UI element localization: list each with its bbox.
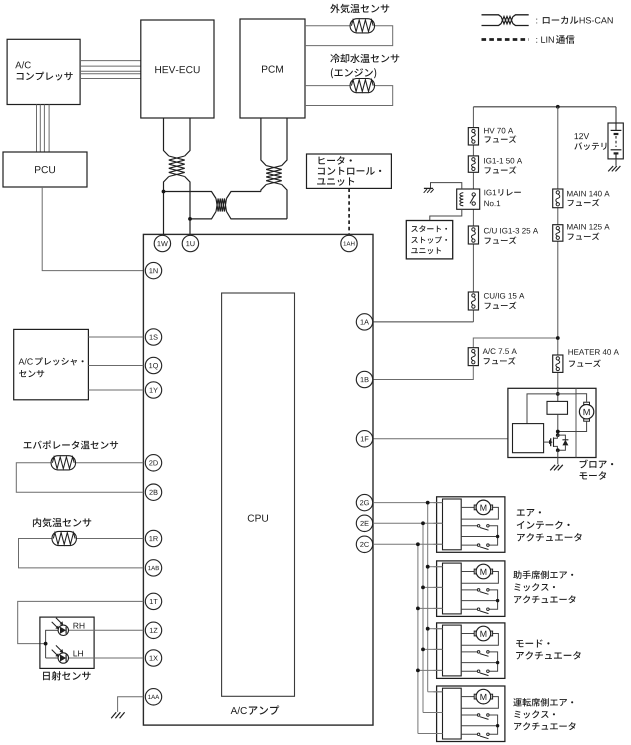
evaporator temp thermistor (51, 456, 75, 470)
legend LIN dashed line (482, 38, 529, 41)
PCM label (262, 66, 283, 73)
driver air mix actuator gearbox block (443, 688, 462, 739)
fuse A/C 7.5A label (483, 348, 517, 354)
wire 1AA to ground (118, 697, 144, 712)
driver air mix actuator common link (489, 715, 498, 734)
mode actuator motor M (474, 631, 476, 636)
wire battery to ground (615, 159, 617, 166)
driver air mix actuator motor loop (461, 697, 498, 709)
wire branch to A/C fuse (473, 338, 558, 348)
feeder vertical 2E (422, 523, 424, 712)
HEV-ECU label (155, 66, 199, 73)
A/C pressure sensor label (19, 358, 33, 364)
wire bundle compressor to HEV-ECU (80, 60, 141, 62)
PCU box (3, 152, 87, 187)
driver air mix actuator switch row1 wire (461, 714, 477, 716)
IG1 relay No.1 box (457, 189, 480, 209)
wire relay coil to start-stop unit (430, 209, 462, 220)
passenger air mix actuator switch row1 wire (461, 589, 477, 591)
12V feed line (473, 106, 616, 108)
driver air mix actuator switch row2 (477, 733, 480, 736)
wire relay block to mosfet (557, 414, 559, 435)
IG1 relay coil (460, 193, 463, 206)
wire PCM to outside air temp sensor (305, 25, 350, 27)
left fuse bus (472, 107, 474, 128)
wire 2C to actuators (373, 543, 443, 545)
heater control unit label (318, 156, 351, 165)
mosfet Q1 (550, 438, 552, 446)
fuse HEATER 40A (553, 355, 563, 372)
air intake actuator common link (489, 526, 498, 545)
wire 1F to blower unit (373, 438, 513, 440)
mosfet body diode (557, 435, 565, 440)
HEV-ECU box (141, 20, 214, 118)
junction dot blower top (556, 392, 560, 396)
fuse IG1-1 50A (468, 156, 478, 172)
passenger air mix actuator switch row1 (477, 589, 480, 592)
junction dot mosfet source (556, 448, 560, 452)
legend twisted-pair symbol (482, 15, 502, 17)
driver air mix actuator switch row1 (477, 714, 480, 717)
driver air mix actuator input wires (434, 691, 443, 693)
solar LH label (73, 650, 82, 656)
passenger air mix actuator common link (489, 590, 498, 609)
terminal 1AH (341, 235, 357, 251)
wire pressure sensor 1Y (88, 389, 143, 391)
wire cabin sensor to 1R (53, 538, 144, 540)
12V battery symbol (615, 123, 617, 130)
terminal 1R (145, 530, 161, 546)
blower unit partition (575, 388, 577, 457)
wire 1T to solar sensor (18, 601, 144, 643)
wire A/C fuse to terminal 1B (373, 366, 473, 380)
relay coil ground (424, 187, 433, 189)
coolant temp sensor label (330, 54, 399, 63)
mode actuator common link (489, 652, 498, 671)
wire 2E to actuators (373, 522, 443, 524)
wire feed to battery (615, 107, 617, 123)
solar sensor box (40, 617, 94, 668)
driver air mix actuator switch row2 wire (461, 733, 477, 735)
fuse MAIN 140A (553, 189, 563, 208)
chassis ground 1AA (111, 712, 116, 718)
terminal 1W (154, 235, 170, 251)
mode actuator gearbox block (443, 625, 462, 676)
blower bus into box (557, 388, 559, 401)
mode actuator switch row2 (477, 670, 480, 673)
fuse MAIN 140A label (567, 191, 609, 197)
junction dot solar rail (44, 642, 48, 646)
fuse MAIN 125A label (567, 224, 609, 230)
mode actuator motor loop (461, 634, 498, 646)
12V battery box (608, 123, 623, 159)
terminal 1F (356, 431, 372, 447)
PCM box (240, 19, 305, 118)
air intake actuator motor loop (461, 507, 498, 519)
passenger air mix actuator gearbox block (443, 563, 462, 614)
wire cabin sensor to 1AB (19, 539, 144, 568)
air intake actuator box (437, 497, 505, 553)
passenger air mix actuator junction dot (496, 599, 499, 602)
passenger air mix actuator motor loop (461, 572, 498, 584)
blower relay block (547, 401, 568, 414)
wire CU/IG fuse to terminal 1A (373, 321, 473, 323)
passenger air mix actuator switch row2 (477, 608, 480, 611)
terminal 1T (145, 593, 161, 609)
A/C pressure sensor box (14, 329, 89, 399)
passenger air mix actuator input wires (434, 566, 443, 568)
air intake actuator switch row1 (477, 525, 480, 528)
HS-CAN twisted pair below PCM (261, 118, 266, 166)
passenger air mix actuator box (437, 561, 505, 617)
terminal 1B (356, 371, 372, 387)
terminal 1S (145, 329, 161, 345)
wire evaporator sensor to 2B (16, 463, 143, 492)
driver air mix actuator box (437, 686, 505, 742)
wire evaporator sensor to 2D (52, 462, 143, 464)
feeder vertical 2G (427, 503, 429, 692)
terminal 1AB (145, 560, 161, 576)
solar sensor rail (45, 630, 47, 658)
battery ground (608, 166, 613, 171)
driver air mix actuator label (513, 698, 573, 706)
air intake actuator motor M (474, 505, 476, 510)
mode actuator junction dot (496, 661, 499, 664)
start-stop unit label (411, 225, 447, 232)
fuse HEATER 40A label (568, 349, 618, 355)
junction dot feed (556, 105, 560, 109)
air intake actuator switch row2 (477, 544, 480, 547)
HS-CAN twisted pair below HEV-ECU (164, 118, 169, 156)
junction dot mosfet drain (556, 433, 560, 437)
solar photodiode LH (58, 653, 68, 663)
feeder dots (426, 501, 430, 505)
outside air temp sensor thermistor (350, 19, 374, 33)
terminal 2G (356, 494, 372, 510)
A/C amplifier label (231, 707, 247, 714)
IG1 relay label (484, 190, 496, 196)
solar sensor label (43, 671, 91, 680)
junction dot motor return (556, 430, 560, 434)
passenger air mix actuator motor wire (461, 571, 475, 573)
coolant temp sensor thermistor (350, 79, 374, 93)
solar photodiode RH (58, 625, 68, 635)
air intake actuator gearbox block (443, 499, 462, 550)
PCU label (35, 166, 55, 173)
terminal 1A (356, 314, 372, 330)
air intake actuator label (517, 509, 541, 516)
wire PCU to terminal 1N (42, 187, 143, 271)
wire PCM to coolant temp sensor (305, 85, 350, 87)
wire blower top to control block (527, 394, 558, 424)
fuse IG1-1 50A label (484, 158, 522, 164)
terminal 2B (145, 484, 161, 500)
terminal 2E (356, 515, 372, 531)
fuse C/U IG1-3 25A (468, 226, 478, 244)
legend HS-CAN label (535, 19, 538, 24)
A/C compressor label (15, 61, 31, 68)
terminal 1Q (145, 357, 161, 373)
CPU box (222, 293, 295, 696)
fuse C/U IG1-3 label (484, 228, 538, 234)
air intake actuator motor wire (461, 506, 475, 508)
horizontal HS-CAN twisted pair link (164, 192, 217, 199)
terminal 1Z (145, 622, 161, 638)
driver air mix actuator motor M (474, 694, 476, 699)
wire solar LH to 1X (68, 657, 143, 659)
CPU label (248, 515, 268, 522)
mode actuator motor wire (461, 633, 475, 635)
air intake actuator switch row1 wire (461, 525, 477, 527)
driver air mix actuator junction dot (496, 724, 499, 727)
junction dot 1W branch (162, 190, 166, 194)
wire solar RH to 1Z (68, 629, 143, 631)
12V battery label (575, 133, 590, 139)
blower motor wire bottom (558, 421, 587, 431)
terminal 2D (145, 455, 161, 471)
wire relay coil to ground (431, 183, 462, 189)
terminal 1AA (145, 689, 161, 705)
outside air temp sensor label (330, 4, 389, 13)
blower motor wire top (576, 394, 587, 402)
passenger air mix actuator switch row2 wire (461, 608, 477, 610)
solar RH label (73, 623, 84, 629)
passenger air mix actuator motor M (474, 569, 476, 574)
wire pressure sensor 1Q (88, 365, 143, 367)
heater control unit box (307, 154, 392, 188)
evaporator temp sensor label (24, 440, 119, 449)
A/C amplifier box (143, 234, 373, 725)
mode actuator switch row1 wire (461, 651, 477, 653)
junction dot 1U branch (188, 217, 192, 221)
terminal 1Y (145, 382, 161, 398)
cabin temp sensor label (33, 518, 91, 527)
air intake actuator switch row2 wire (461, 544, 477, 546)
blower motor M1 (584, 402, 590, 404)
passenger air mix actuator label (513, 571, 573, 579)
wire pressure sensor 1S (88, 336, 143, 338)
wire 2G to actuators (373, 502, 443, 504)
IG1 relay switch (472, 193, 475, 196)
fuse CU/IG label (484, 293, 524, 299)
air intake actuator junction dot (496, 535, 499, 538)
blower unit box (508, 388, 596, 457)
fuse MAIN 125A (553, 225, 563, 242)
terminal 1U (182, 235, 198, 251)
mode actuator switch row2 wire (461, 670, 477, 672)
terminal 1N (145, 262, 161, 278)
terminal 2C (356, 536, 372, 552)
wire blower top to partition (558, 393, 576, 395)
driver air mix actuator motor wire (461, 696, 475, 698)
fuse CU/IG 15A (468, 292, 478, 310)
fuse A/C 7.5A (468, 348, 478, 366)
right main bus (557, 107, 559, 189)
cabin temp thermistor (52, 531, 76, 545)
air intake actuator input wires (434, 502, 443, 504)
start-stop unit box (406, 221, 452, 259)
blower motor label (580, 460, 614, 469)
wire bundle compressor to PCU (36, 105, 38, 153)
junction dot A/C branch (556, 336, 560, 340)
LIN wire heater unit to 1AH (348, 188, 350, 235)
blower control block (513, 424, 544, 453)
mosfet Q1 gate wire (544, 441, 549, 443)
feeder vertical 2C (417, 544, 419, 733)
fuse HV 70A label (484, 128, 513, 134)
mode actuator box (437, 623, 505, 679)
blower ground (550, 465, 555, 471)
mode actuator switch row1 (477, 651, 480, 654)
mode actuator label (516, 640, 549, 648)
terminal 1X (145, 650, 161, 666)
mode actuator input wires (434, 628, 443, 630)
legend LIN label (536, 37, 553, 43)
fuse HV 70A (468, 128, 478, 145)
wire mosfet to ground (557, 450, 559, 464)
A/C compressor box (7, 39, 80, 104)
